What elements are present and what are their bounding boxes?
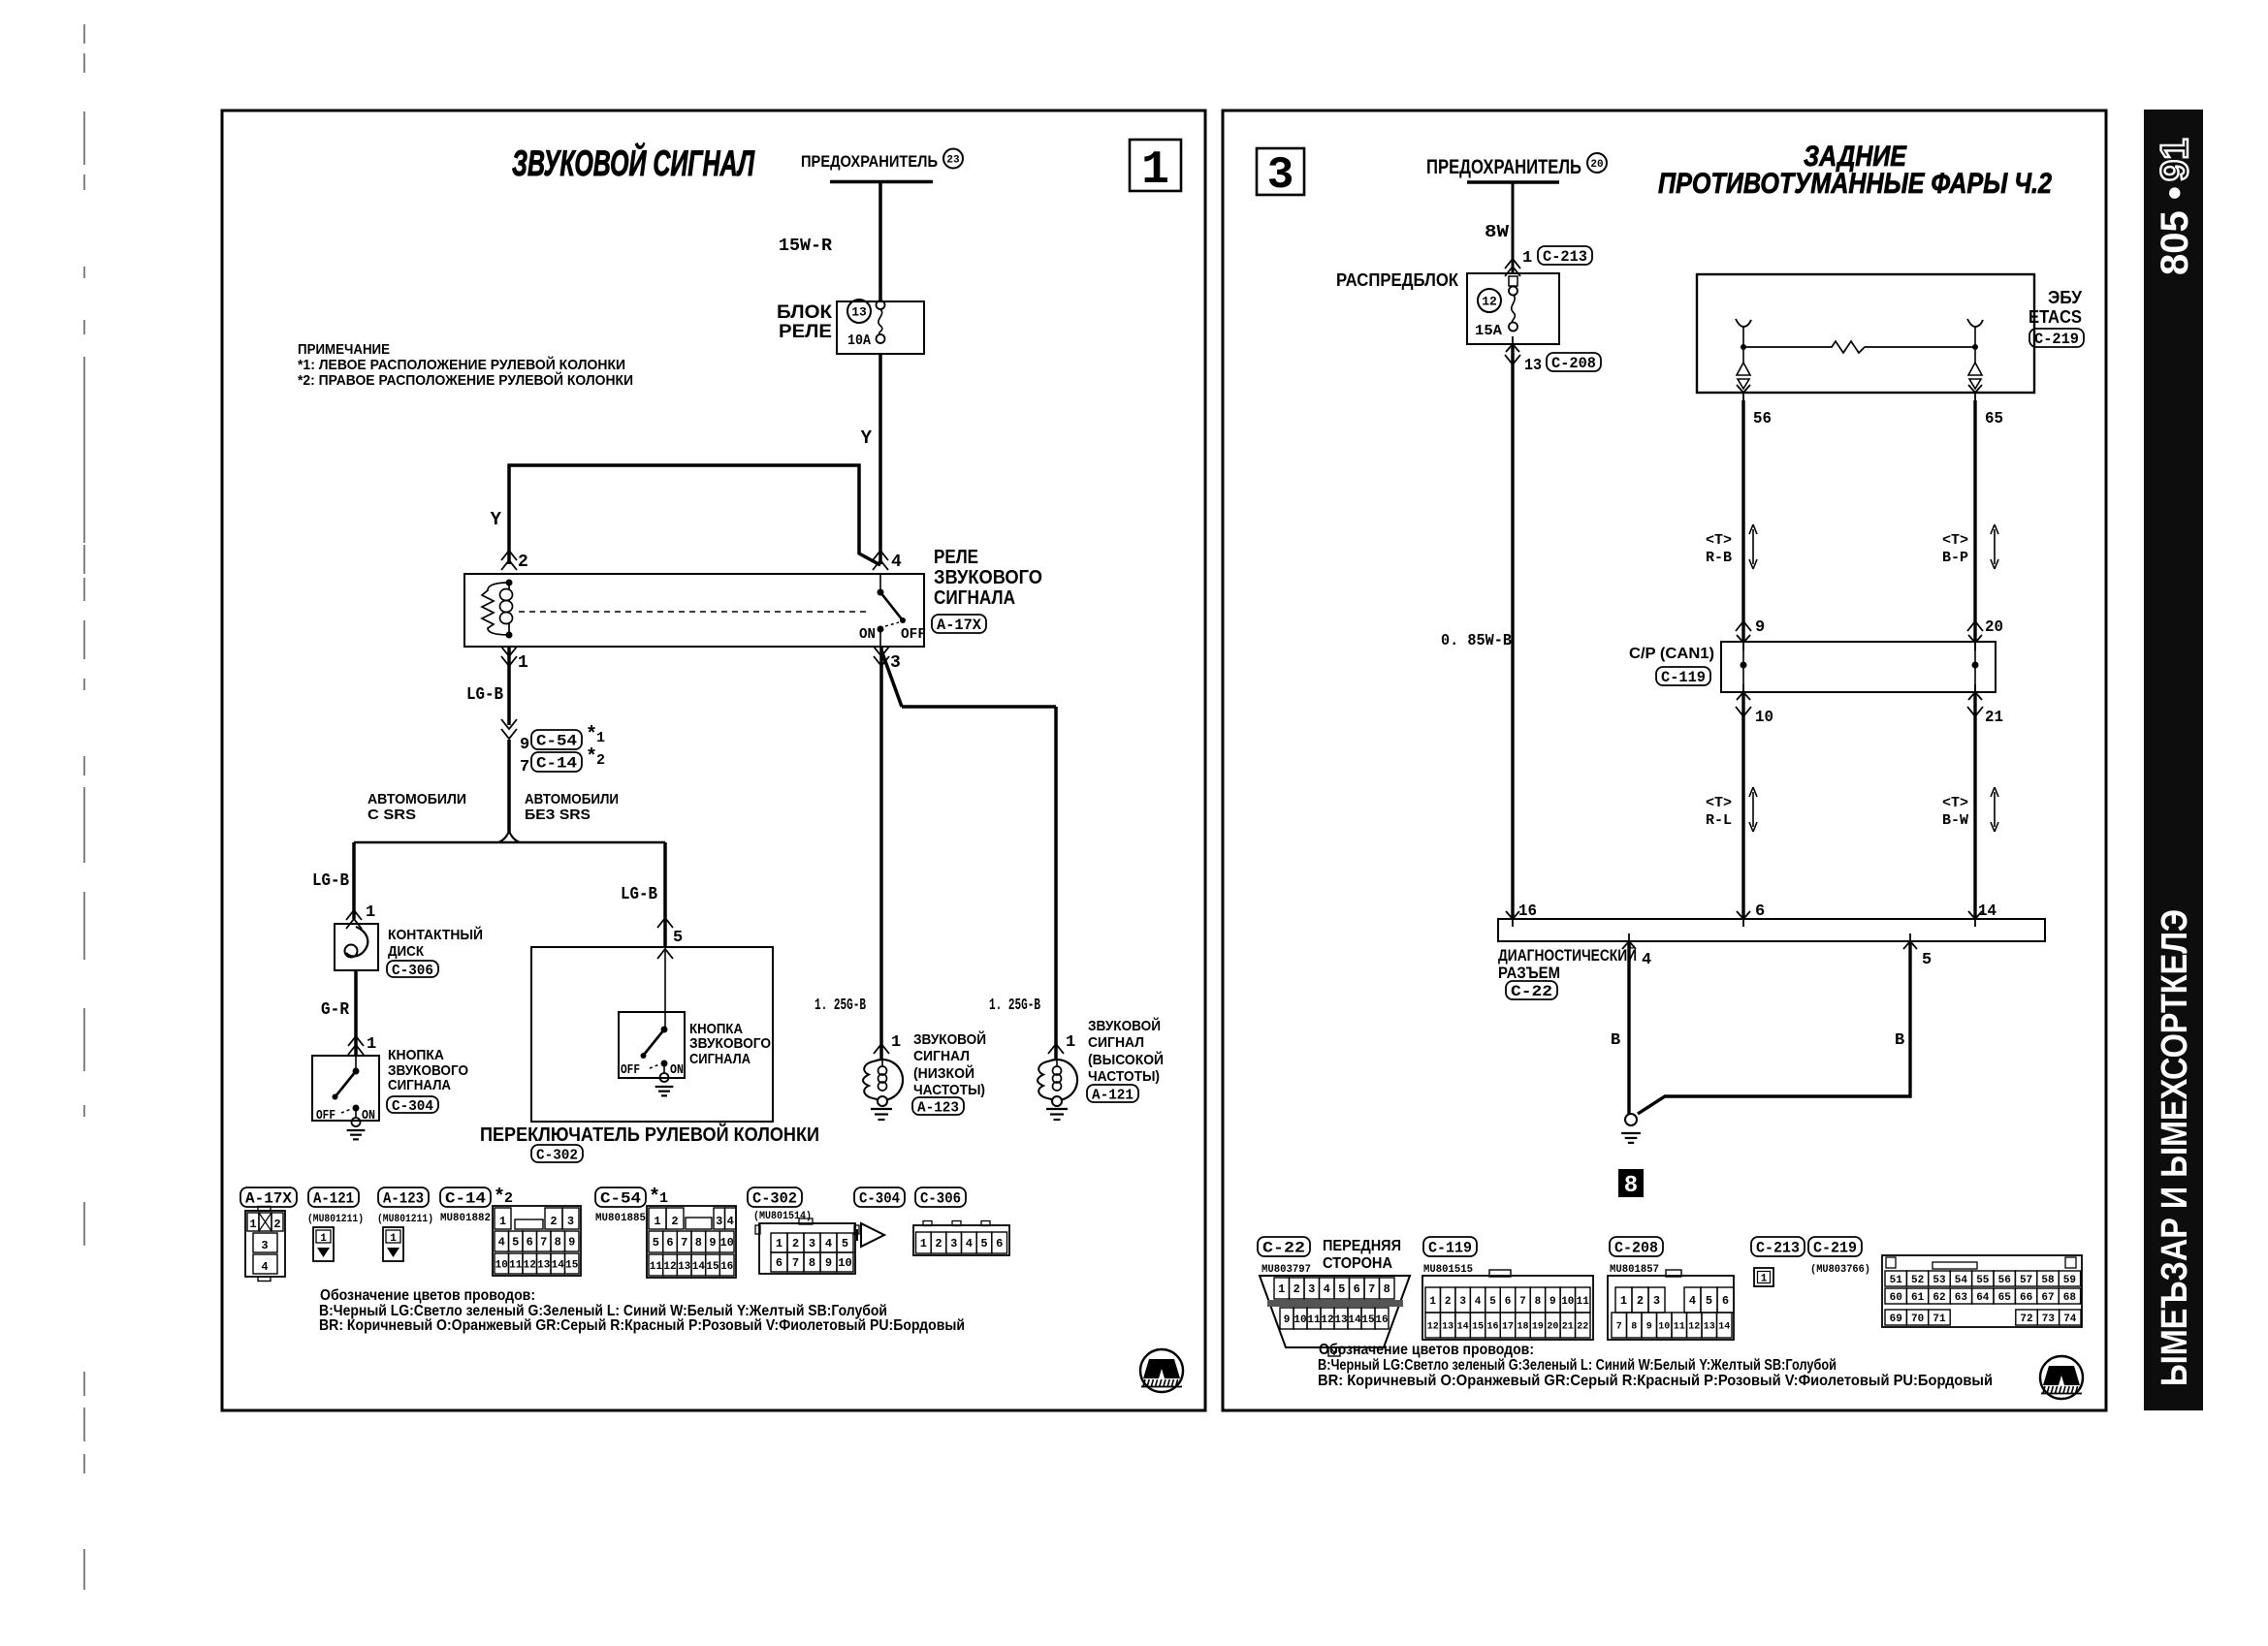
left panel border [222, 111, 1205, 1410]
high frequency horn symbol A-121 [1038, 1060, 1077, 1106]
black sidebar [2144, 110, 2203, 1410]
wire 15W-R from fuse 23 to relay block [878, 182, 882, 303]
svg-text:5: 5 [653, 1236, 659, 1250]
svg-text:3: 3 [261, 1239, 268, 1252]
svg-text:1: 1 [1620, 1294, 1627, 1308]
svg-text:7: 7 [520, 758, 529, 776]
contact disc clock-spring symbol [346, 927, 367, 956]
svg-text:3: 3 [1459, 1296, 1466, 1308]
svg-text:A-121: A-121 [313, 1190, 354, 1208]
svg-text:C-22: C-22 [1262, 1240, 1305, 1257]
svg-text:7: 7 [1616, 1322, 1622, 1333]
connector ref A-121 bottom [308, 1187, 359, 1207]
svg-text:20: 20 [1547, 1322, 1558, 1333]
svg-text:C-213: C-213 [1756, 1240, 1800, 1257]
svg-text:СИГНАЛА: СИГНАЛА [689, 1051, 751, 1067]
connector ref C-54 bottom [595, 1187, 646, 1207]
svg-text:10: 10 [1561, 1296, 1574, 1308]
svg-text:3: 3 [890, 653, 901, 673]
ETACS connector ref C-219 [2029, 329, 2084, 347]
connector table C-302 [759, 1223, 855, 1274]
svg-text:2: 2 [273, 1218, 280, 1231]
svg-text:2: 2 [518, 553, 528, 572]
svg-text:12: 12 [1427, 1322, 1439, 1333]
svg-text:G-R: G-R [321, 1000, 349, 1020]
svg-text:805 •: 805 • [2154, 186, 2196, 275]
wire 8W from fuse 20 [1512, 182, 1515, 273]
svg-text:13: 13 [851, 305, 867, 320]
svg-text:14: 14 [692, 1261, 706, 1273]
ETACS ECU box [1697, 274, 2034, 393]
wire B from diag pin 5 to ground [1638, 941, 1910, 1114]
svg-text:BR: Коричневый O:Оранжевый GR:: BR: Коричневый O:Оранжевый GR:Серый R:Кр… [319, 1317, 965, 1334]
svg-text:1: 1 [1141, 144, 1169, 197]
inline connector chevrons C-54/C-14 [501, 719, 517, 729]
branch wire Y to pin 2 of horn relay [509, 465, 859, 564]
svg-text:7: 7 [540, 1236, 547, 1250]
svg-text:1: 1 [1278, 1282, 1285, 1296]
svg-text:A-17X: A-17X [937, 617, 981, 634]
fuse 13 10A symbol [877, 301, 885, 309]
svg-text:1: 1 [654, 1215, 660, 1228]
contact disc connector ref C-306 [387, 961, 438, 977]
relay coil [500, 589, 513, 601]
svg-text:6: 6 [1505, 1296, 1512, 1308]
connector ref C-14 bottom [440, 1187, 491, 1207]
svg-text:6: 6 [527, 1236, 533, 1250]
svg-text:MU801857: MU801857 [1610, 1264, 1659, 1276]
high horn ground [1046, 1108, 1068, 1110]
svg-text:1: 1 [1429, 1296, 1436, 1308]
wire 1.25G-B from relay pin 3 to low horn [879, 647, 883, 1059]
svg-text:ЗВУКОВОЙ СИГНАЛ: ЗВУКОВОЙ СИГНАЛ [512, 142, 755, 183]
svg-text:10: 10 [719, 1236, 733, 1250]
svg-text:9: 9 [1549, 1296, 1556, 1308]
steering column switch box C-302 [531, 947, 773, 1122]
svg-text:<T>: <T> [1706, 532, 1732, 549]
svg-text:23: 23 [946, 154, 960, 166]
svg-text:10: 10 [495, 1259, 508, 1271]
svg-text:C-22: C-22 [1511, 983, 1552, 1000]
wire LG-B continues to SRS split [507, 740, 511, 832]
svg-text:22: 22 [1577, 1322, 1588, 1333]
connector table A-123 [383, 1227, 403, 1261]
horn button box C-304 [312, 1056, 379, 1121]
svg-text:(MU801211): (MU801211) [377, 1214, 433, 1225]
relay mechanical dashed link [519, 611, 871, 613]
svg-text:7: 7 [1519, 1296, 1526, 1308]
svg-text:OFF: OFF [316, 1108, 335, 1124]
svg-text:8: 8 [1624, 1173, 1638, 1199]
svg-text:1. 25G-B: 1. 25G-B [815, 997, 866, 1015]
svg-text:5: 5 [673, 929, 683, 947]
connector ref A-123 bottom [378, 1187, 429, 1207]
svg-text:3: 3 [716, 1215, 722, 1228]
svg-text:B-P: B-P [1942, 550, 1968, 566]
svg-text:4: 4 [1475, 1296, 1482, 1308]
twisted arrow right upper [1991, 524, 1998, 569]
svg-text:4: 4 [1324, 1282, 1330, 1296]
svg-text:Y: Y [491, 509, 502, 530]
svg-text:67: 67 [2041, 1292, 2054, 1304]
svg-text:8: 8 [809, 1256, 815, 1270]
junction block pin 13 [1506, 336, 1519, 352]
svg-text:10: 10 [838, 1256, 851, 1270]
svg-text:BR: Коричневый O:Оранжевый GR:: BR: Коричневый O:Оранжевый GR:Серый R:Кр… [1318, 1373, 1993, 1389]
svg-text:61: 61 [1911, 1292, 1925, 1304]
ETACS internal right hook [1967, 319, 1983, 327]
wire B from diag pin 4 to ground [1627, 941, 1630, 1114]
connector table C-14 [493, 1206, 581, 1276]
svg-text:15W-R: 15W-R [779, 237, 832, 256]
svg-text:20: 20 [1590, 159, 1603, 171]
svg-text:9: 9 [1646, 1322, 1652, 1333]
svg-text:Y: Y [861, 427, 873, 449]
svg-text:(MU801514): (MU801514) [753, 1211, 812, 1222]
svg-text:3: 3 [1267, 150, 1294, 201]
svg-text:5: 5 [980, 1237, 987, 1250]
svg-text:C-304: C-304 [392, 1098, 433, 1115]
svg-text:ЧАСТОТЫ): ЧАСТОТЫ) [1088, 1068, 1160, 1085]
svg-text:58: 58 [2041, 1275, 2055, 1286]
horn relay pin 1 [501, 647, 517, 656]
svg-text:1: 1 [920, 1237, 927, 1250]
sheet number box 1 [1130, 140, 1181, 191]
inline connector chevrons C-213 [1505, 259, 1520, 269]
svg-text:2: 2 [1445, 1296, 1452, 1308]
low horn connector ref A-123 [912, 1097, 964, 1115]
connector symbol C-304 triangle [861, 1223, 884, 1247]
svg-text:B:Черный LG:Светло зеленый G:З: B:Черный LG:Светло зеленый G:Зеленый L: … [1318, 1357, 1837, 1374]
svg-text:7: 7 [681, 1236, 687, 1250]
wire Y from relay block down to horn relay pin 4 [878, 354, 882, 564]
svg-text:B: B [1895, 1031, 1904, 1050]
svg-text:6: 6 [1354, 1282, 1360, 1296]
svg-text:1: 1 [320, 1233, 327, 1245]
svg-text:C-208: C-208 [1551, 355, 1596, 372]
svg-text:51: 51 [1890, 1275, 1903, 1286]
CAN1 connector box C-119 [1721, 642, 1996, 692]
svg-text:(ВЫСОКОЙ: (ВЫСОКОЙ [1088, 1051, 1164, 1068]
svg-text:9: 9 [709, 1236, 716, 1250]
svg-text:15: 15 [1472, 1322, 1484, 1333]
svg-text:1: 1 [1522, 249, 1532, 268]
svg-text:10A: 10A [847, 332, 871, 349]
svg-text:R-L: R-L [1706, 812, 1732, 829]
svg-text:2: 2 [1294, 1282, 1300, 1296]
svg-text:8: 8 [1535, 1296, 1542, 1308]
twisted arrow left lower [1749, 787, 1757, 832]
wire R-L from CAN to diag connector [1741, 692, 1744, 919]
horn relay box A-17X [464, 574, 924, 647]
svg-text:65: 65 [1998, 1292, 2012, 1304]
svg-text:4: 4 [1689, 1294, 1696, 1308]
svg-text:ЗВУКОВОЙ: ЗВУКОВОЙ [1088, 1017, 1161, 1034]
svg-text:54: 54 [1955, 1275, 1968, 1286]
svg-text:1: 1 [1066, 1033, 1075, 1052]
jog from branch to pin 4 junction [859, 554, 880, 565]
svg-text:СИГНАЛА: СИГНАЛА [388, 1077, 451, 1093]
scan artifact dashes left margin [83, 24, 85, 1590]
svg-text:70: 70 [1911, 1314, 1924, 1325]
svg-text:*1: ЛЕВОЕ РАСПОЛОЖЕНИЕ РУЛЕВОЙ: *1: ЛЕВОЕ РАСПОЛОЖЕНИЕ РУЛЕВОЙ КОЛОНКИ [298, 356, 625, 373]
svg-text:Обозначение цветов проводов:: Обозначение цветов проводов: [320, 1287, 535, 1304]
column switch connector ref C-302 [531, 1145, 583, 1162]
svg-text:LG-B: LG-B [312, 871, 349, 891]
svg-text:5: 5 [1338, 1282, 1345, 1296]
connector ref C-304 bottom [854, 1187, 905, 1207]
relay switch arm [879, 574, 881, 592]
svg-text:C-302: C-302 [536, 1147, 578, 1163]
svg-text:56: 56 [1753, 410, 1772, 428]
svg-text:11: 11 [509, 1259, 523, 1271]
wire B-W from CAN to diag connector [1973, 692, 1976, 919]
svg-text:13: 13 [537, 1259, 551, 1271]
CAN connector ref C-119 [1656, 667, 1710, 685]
horn relay connector ref A-17X [932, 615, 986, 633]
svg-text:10: 10 [1658, 1322, 1670, 1333]
svg-text:17: 17 [1502, 1322, 1514, 1333]
svg-text:2: 2 [792, 1237, 799, 1250]
svg-text:ON: ON [362, 1108, 375, 1124]
wire B-P from ETACS 65 to CAN [1973, 400, 1976, 642]
svg-text:B: B [1611, 1031, 1620, 1050]
svg-text:73: 73 [2042, 1314, 2056, 1325]
svg-text:3: 3 [1653, 1294, 1660, 1308]
CAN pin 20 [1967, 621, 1983, 631]
svg-text:6: 6 [666, 1236, 673, 1250]
svg-text:64: 64 [1976, 1292, 1990, 1304]
svg-text:74: 74 [2063, 1314, 2077, 1325]
svg-text:9: 9 [568, 1236, 575, 1250]
diag connector ref C-22 [1506, 981, 1557, 999]
ETACS pin 56 [1737, 385, 1750, 400]
horn button connector ref C-304 [387, 1096, 438, 1113]
fuse 20 supply bar [1467, 180, 1559, 184]
svg-text:ДИСК: ДИСК [388, 943, 425, 960]
svg-text:РЕЛЕ: РЕЛЕ [779, 322, 832, 342]
svg-text:C-302: C-302 [752, 1190, 797, 1208]
svg-text:60: 60 [1890, 1292, 1902, 1304]
circled 13 fuse number [847, 300, 871, 323]
svg-text:10: 10 [1755, 709, 1773, 727]
svg-text:12: 12 [524, 1259, 536, 1271]
svg-text:72: 72 [2020, 1314, 2032, 1325]
svg-text:OFF: OFF [621, 1062, 640, 1078]
wire inside column switch [664, 951, 666, 1029]
junction block box [1467, 273, 1559, 344]
svg-text:2: 2 [1637, 1294, 1644, 1308]
svg-text:13: 13 [678, 1261, 691, 1273]
svg-text:18: 18 [1517, 1322, 1528, 1333]
svg-text:5: 5 [1489, 1296, 1496, 1308]
svg-text:8W: 8W [1485, 223, 1509, 242]
svg-text:LG-B: LG-B [466, 685, 503, 705]
svg-text:<T>: <T> [1706, 795, 1732, 811]
svg-text:7: 7 [1368, 1282, 1375, 1296]
connector table C-306 [913, 1225, 1009, 1255]
svg-text:5: 5 [1922, 951, 1932, 969]
svg-text:C-304: C-304 [859, 1190, 900, 1208]
svg-text:1: 1 [776, 1237, 783, 1250]
sheet number box 3 [1257, 148, 1304, 195]
connector table A-17X [245, 1211, 285, 1277]
svg-text:3: 3 [950, 1237, 957, 1250]
svg-text:АВТОМОБИЛИ: АВТОМОБИЛИ [525, 791, 619, 807]
svg-text:3: 3 [809, 1237, 815, 1250]
wire LG-B from relay pin 1 [507, 647, 511, 725]
horn relay pin 3 [874, 647, 889, 656]
svg-text:12: 12 [1482, 295, 1497, 309]
connector ref C-208 bottom [1610, 1237, 1663, 1256]
svg-text:68: 68 [2063, 1292, 2077, 1304]
svg-text:A-123: A-123 [917, 1099, 959, 1116]
horn button switch [355, 1056, 357, 1071]
svg-text:7: 7 [792, 1256, 799, 1270]
branch wire to steering column switch [664, 842, 666, 947]
svg-text:СИГНАЛ: СИГНАЛ [1088, 1034, 1144, 1051]
svg-text:*2: ПРАВОЕ РАСПОЛОЖЕНИЕ РУЛЕВО: *2: ПРАВОЕ РАСПОЛОЖЕНИЕ РУЛЕВОЙ КОЛОНКИ [298, 371, 633, 389]
svg-text:СИГНАЛА: СИГНАЛА [934, 587, 1015, 609]
svg-text:ЫМЕЪЗАР И ЫМЕХСОРТКЕЛЭ: ЫМЕЪЗАР И ЫМЕХСОРТКЕЛЭ [2155, 909, 2195, 1386]
SRS split horizontal wire [354, 841, 665, 844]
column switch contact [661, 1027, 668, 1033]
svg-text:C-306: C-306 [920, 1190, 961, 1208]
svg-text:5: 5 [842, 1237, 848, 1250]
svg-text:АВТОМОБИЛИ: АВТОМОБИЛИ [367, 791, 466, 807]
svg-text:1. 25G-B: 1. 25G-B [989, 997, 1040, 1015]
fuse 23 supply bar [830, 180, 933, 184]
svg-text:9: 9 [520, 736, 529, 754]
svg-text:ЗВУКОВОГО: ЗВУКОВОГО [934, 567, 1042, 588]
svg-text:8: 8 [695, 1236, 702, 1250]
svg-text:БЛОК: БЛОК [777, 302, 832, 323]
connector table C-213 [1754, 1268, 1773, 1286]
svg-text:MU801515: MU801515 [1423, 1264, 1473, 1276]
svg-text:C-219: C-219 [2034, 331, 2079, 348]
low frequency horn symbol A-123 [863, 1060, 903, 1106]
svg-text:1: 1 [366, 903, 375, 922]
svg-text:2: 2 [596, 752, 605, 769]
svg-text:ПРЕДОХРАНИТЕЛЬ: ПРЕДОХРАНИТЕЛЬ [1426, 156, 1581, 178]
body ground 8 [1625, 1114, 1637, 1125]
svg-text:8: 8 [555, 1236, 561, 1250]
ETACS internal left hook [1736, 319, 1751, 327]
svg-text:C-14: C-14 [536, 755, 577, 773]
wire 0.85W-B from junction block to diagnostic connector [1511, 344, 1514, 919]
svg-text:16: 16 [720, 1261, 733, 1273]
twisted arrow left upper [1749, 524, 1757, 569]
svg-text:ПЕРЕКЛЮЧАТЕЛЬ РУЛЕВОЙ КОЛОНКИ: ПЕРЕКЛЮЧАТЕЛЬ РУЛЕВОЙ КОЛОНКИ [480, 1123, 819, 1146]
svg-text:12: 12 [1688, 1322, 1700, 1333]
svg-text:1: 1 [891, 1033, 901, 1052]
horn relay pin 2 [501, 551, 517, 560]
SRS split fork [498, 831, 520, 842]
svg-text:8: 8 [1384, 1282, 1390, 1296]
svg-text:66: 66 [2020, 1292, 2032, 1304]
CAN pin 10 [1737, 684, 1750, 700]
svg-text:ПРОТИВОТУМАННЫЕ ФАРЫ Ч.2: ПРОТИВОТУМАННЫЕ ФАРЫ Ч.2 [1658, 168, 2052, 200]
svg-text:13: 13 [1524, 357, 1542, 375]
high horn connector ref A-121 [1087, 1085, 1138, 1102]
svg-text:9: 9 [1284, 1314, 1291, 1326]
svg-text:1: 1 [1761, 1274, 1768, 1285]
svg-text:<T>: <T> [1942, 532, 1968, 549]
svg-text:6: 6 [1722, 1294, 1729, 1308]
CAN pin 9 [1736, 621, 1751, 631]
svg-text:MU803797: MU803797 [1262, 1264, 1311, 1276]
svg-text:11: 11 [1577, 1296, 1590, 1308]
svg-text:(MU803766): (MU803766) [1810, 1264, 1870, 1276]
connector ref C-119 bottom [1423, 1237, 1477, 1256]
svg-text:15: 15 [565, 1259, 579, 1271]
svg-text:91: 91 [2154, 139, 2196, 182]
svg-text:16: 16 [1487, 1322, 1499, 1333]
svg-text:ПЕРЕДНЯЯ: ПЕРЕДНЯЯ [1323, 1238, 1401, 1254]
svg-text:11: 11 [1674, 1322, 1685, 1333]
left publisher logo [1140, 1349, 1183, 1392]
svg-text:3: 3 [567, 1215, 574, 1228]
horn relay pin 4 [873, 551, 888, 560]
svg-text:8: 8 [1631, 1322, 1637, 1333]
fuse 12 15A symbol [1509, 276, 1517, 286]
relay resistor [482, 583, 509, 635]
svg-text:53: 53 [1933, 1275, 1946, 1286]
svg-text:1: 1 [596, 730, 605, 746]
relay block box [837, 301, 924, 354]
svg-text:ETACS: ETACS [2028, 307, 2082, 327]
svg-text:13: 13 [1704, 1322, 1715, 1333]
svg-text:ON: ON [670, 1062, 684, 1078]
svg-text:11: 11 [1307, 1314, 1321, 1326]
svg-text:C-54: C-54 [536, 733, 577, 750]
svg-text:ЧАСТОТЫ): ЧАСТОТЫ) [913, 1082, 985, 1098]
svg-text:15: 15 [1361, 1314, 1375, 1326]
svg-text:13: 13 [1442, 1322, 1453, 1333]
svg-text:1: 1 [367, 1035, 376, 1054]
svg-text:РАЗЪЕМ: РАЗЪЕМ [1498, 964, 1560, 982]
svg-text:1: 1 [390, 1233, 397, 1245]
svg-text:4: 4 [261, 1260, 268, 1274]
svg-text:КНОПКА: КНОПКА [388, 1047, 444, 1063]
ETACS internal resistor line [1741, 344, 1746, 350]
svg-text:БЕЗ SRS: БЕЗ SRS [525, 807, 591, 823]
svg-text:2: 2 [550, 1215, 557, 1228]
svg-text:12: 12 [663, 1261, 676, 1273]
svg-text:РАСПРЕДБЛОК: РАСПРЕДБЛОК [1336, 270, 1459, 290]
svg-text:C-306: C-306 [392, 963, 433, 979]
svg-text:21: 21 [1562, 1322, 1574, 1333]
svg-text:0. 85W-B: 0. 85W-B [1441, 632, 1512, 650]
diagnostic connector box C-22 [1498, 919, 2045, 941]
connector ref C-219 bottom [1808, 1237, 1862, 1256]
svg-text:10: 10 [1294, 1314, 1306, 1326]
svg-text:59: 59 [2063, 1275, 2076, 1286]
svg-text:(НИЗКОЙ: (НИЗКОЙ [913, 1064, 974, 1082]
svg-text:6: 6 [776, 1256, 783, 1270]
svg-text:MU801885: MU801885 [595, 1213, 646, 1224]
svg-text:69: 69 [1890, 1314, 1902, 1325]
svg-text:ЭБУ: ЭБУ [2048, 288, 2083, 307]
twisted arrow right lower [1991, 787, 1998, 832]
svg-text:5: 5 [512, 1236, 519, 1250]
svg-text:57: 57 [2020, 1275, 2032, 1286]
connector ref C-22 bottom [1258, 1237, 1310, 1256]
svg-text:(MU801211): (MU801211) [307, 1214, 364, 1225]
svg-text:1: 1 [499, 1215, 506, 1228]
svg-text:<T>: <T> [1942, 795, 1968, 811]
svg-text:15A: 15A [1475, 323, 1502, 339]
